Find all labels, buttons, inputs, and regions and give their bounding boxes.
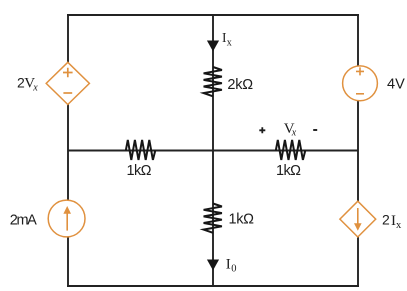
svg-text:1kΩ: 1kΩ <box>276 163 301 179</box>
current arrow Ix <box>207 41 219 52</box>
svg-text:I: I <box>226 257 231 273</box>
svg-text:x: x <box>291 128 297 139</box>
wire middle vertical <box>212 14 214 287</box>
polarity plus of Vx <box>259 127 265 133</box>
wire top <box>67 14 359 16</box>
svg-text:1kΩ: 1kΩ <box>229 212 255 228</box>
arrow of 2mA <box>66 210 68 231</box>
svg-text:4V: 4V <box>387 77 405 93</box>
svg-text:x: x <box>396 220 402 231</box>
svg-text:0: 0 <box>231 264 236 275</box>
dependent current source 2Ix (diamond with down arrow) <box>340 201 376 237</box>
wire left <box>67 14 69 287</box>
svg-text:x: x <box>227 38 232 49</box>
wire middle horizontal <box>68 150 358 152</box>
voltage source 4V (circle) <box>343 66 378 101</box>
current source 2mA (circle with up arrow) <box>48 200 85 237</box>
resistor 1k left (horizontal zigzag) <box>126 140 156 160</box>
svg-text:2kΩ: 2kΩ <box>227 77 253 93</box>
wire bottom <box>67 285 359 287</box>
minus sign of 4V <box>356 93 364 95</box>
dependent voltage source 2Vx (diamond) <box>46 62 89 104</box>
resistor 1k right (horizontal zigzag) <box>276 140 306 160</box>
polarity minus of Vx <box>313 129 317 131</box>
resistor 1k bottom (vertical zigzag) <box>204 204 222 233</box>
wire right <box>357 14 359 287</box>
resistor 2k (vertical zigzag) <box>204 67 222 96</box>
arrow of 2Ix <box>357 208 359 227</box>
svg-text:1kΩ: 1kΩ <box>127 163 152 179</box>
svg-text:x: x <box>32 83 38 94</box>
minus sign of 2Vx <box>63 92 72 94</box>
plus sign of 2Vx <box>63 68 73 78</box>
svg-text:2mA: 2mA <box>10 212 37 228</box>
plus sign of 4V <box>356 67 364 75</box>
svg-text:2: 2 <box>382 212 390 228</box>
current arrow I0 <box>207 260 219 271</box>
